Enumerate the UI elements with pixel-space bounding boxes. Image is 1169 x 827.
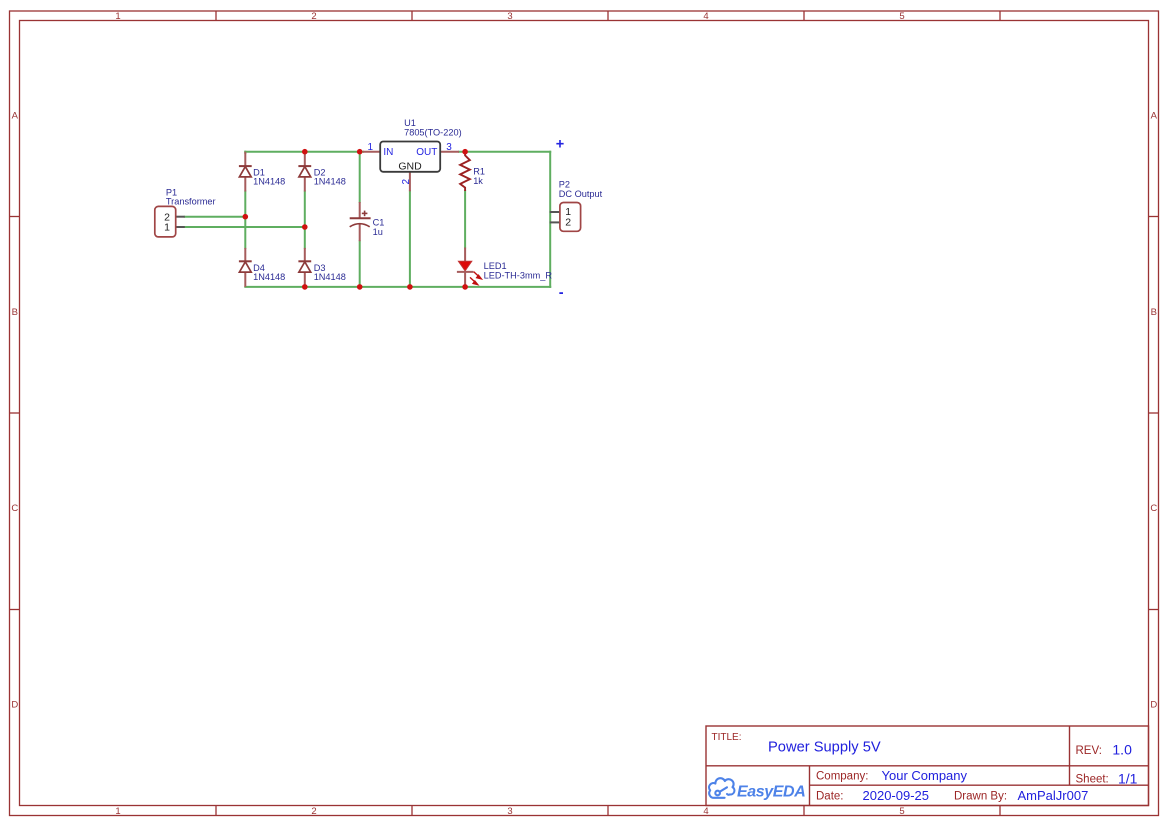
svg-text:1: 1 xyxy=(164,222,170,234)
svg-text:TITLE:: TITLE: xyxy=(712,732,742,743)
svg-text:A: A xyxy=(12,111,19,122)
svg-text:2: 2 xyxy=(401,179,412,185)
svg-text:1: 1 xyxy=(367,142,373,153)
svg-text:DC Output: DC Output xyxy=(559,189,603,199)
svg-text:1: 1 xyxy=(115,806,120,817)
svg-text:D: D xyxy=(11,699,18,710)
svg-text:4: 4 xyxy=(703,11,708,22)
svg-text:B: B xyxy=(12,307,18,318)
svg-text:1N4148: 1N4148 xyxy=(314,177,346,187)
svg-text:2: 2 xyxy=(565,216,571,228)
svg-text:5: 5 xyxy=(899,806,904,817)
svg-text:1N4148: 1N4148 xyxy=(253,272,285,282)
svg-text:3: 3 xyxy=(507,11,512,22)
svg-text:2020-09-25: 2020-09-25 xyxy=(863,788,930,803)
svg-text:4: 4 xyxy=(703,806,708,817)
svg-text:-: - xyxy=(559,285,564,301)
svg-text:7805(TO-220): 7805(TO-220) xyxy=(404,128,462,138)
svg-text:Transformer: Transformer xyxy=(166,197,216,207)
svg-text:AmPalJr007: AmPalJr007 xyxy=(1018,788,1089,803)
svg-text:OUT: OUT xyxy=(416,147,437,158)
svg-text:B: B xyxy=(1151,307,1157,318)
svg-text:U1: U1 xyxy=(404,118,416,128)
svg-text:2: 2 xyxy=(311,806,316,817)
svg-text:3: 3 xyxy=(507,806,512,817)
svg-text:REV:: REV: xyxy=(1076,745,1102,757)
svg-text:1N4148: 1N4148 xyxy=(314,272,346,282)
svg-text:GND: GND xyxy=(398,161,422,173)
svg-text:1k: 1k xyxy=(473,176,483,186)
svg-text:D: D xyxy=(1150,699,1157,710)
svg-text:C: C xyxy=(1150,503,1157,514)
svg-text:Drawn By:: Drawn By: xyxy=(954,791,1007,803)
svg-text:5: 5 xyxy=(899,11,904,22)
svg-text:C: C xyxy=(11,503,18,514)
svg-text:Date:: Date: xyxy=(816,791,844,803)
svg-text:1: 1 xyxy=(115,11,120,22)
svg-text:2: 2 xyxy=(311,11,316,22)
svg-text:3: 3 xyxy=(446,142,452,153)
svg-text:1N4148: 1N4148 xyxy=(253,177,285,187)
svg-text:Company:: Company: xyxy=(816,771,868,783)
svg-text:1.0: 1.0 xyxy=(1112,741,1132,757)
svg-text:1/1: 1/1 xyxy=(1118,770,1138,786)
svg-text:1u: 1u xyxy=(373,227,383,237)
svg-text:Power Supply 5V: Power Supply 5V xyxy=(768,740,881,756)
svg-text:EasyEDA: EasyEDA xyxy=(737,784,805,801)
svg-text:LED-TH-3mm_R: LED-TH-3mm_R xyxy=(484,270,553,280)
svg-text:Sheet:: Sheet: xyxy=(1076,774,1109,786)
svg-text:A: A xyxy=(1151,111,1158,122)
svg-text:+: + xyxy=(556,136,564,152)
svg-text:IN: IN xyxy=(383,147,393,158)
svg-text:Your Company: Your Company xyxy=(882,768,968,783)
